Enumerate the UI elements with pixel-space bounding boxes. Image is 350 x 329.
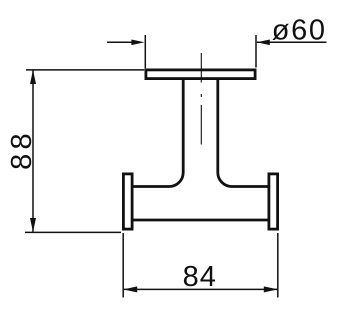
svg-text:88: 88 [6,129,38,170]
svg-text:84: 84 [183,261,217,293]
svg-text:ø60: ø60 [272,15,327,47]
